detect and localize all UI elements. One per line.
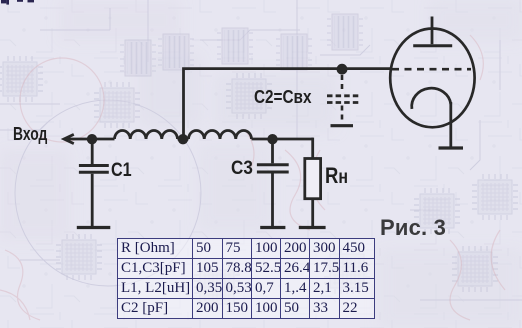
caption Ris. 3: [380, 215, 446, 241]
inductor L2: [189, 131, 252, 139]
clipped title text top-left: [1, 0, 34, 5]
label Vhod (input): [13, 124, 47, 145]
node J3: [267, 134, 277, 144]
label C3: [231, 158, 253, 180]
wire bend down to Rn: [311, 138, 314, 159]
ground bar Rn: [299, 226, 326, 229]
tube anode lead: [431, 17, 434, 45]
wire C3 bottom lead: [271, 174, 274, 227]
capacitor C2 dashed lead top: [341, 75, 344, 93]
capacitor C2 dashed lead bottom: [341, 106, 344, 122]
label Rn: [325, 163, 348, 189]
node J2: [178, 134, 188, 144]
label C1: [111, 160, 132, 182]
ground bar C1: [77, 226, 111, 229]
node J4: [337, 64, 348, 75]
inductor L1: [115, 131, 178, 139]
wire L2 to Rn bend: [252, 138, 314, 141]
input arrow: [64, 134, 92, 143]
wire J2 up and across to tube: [182, 69, 390, 140]
tube anode plate: [413, 44, 452, 47]
wire C1 bottom lead: [91, 174, 94, 227]
tube cathode: [412, 88, 451, 109]
wire Rn bottom lead: [311, 199, 314, 227]
resistor Rn: [305, 159, 321, 199]
capacitor C3: [257, 165, 289, 172]
tube envelope U1: [390, 29, 474, 128]
wire L1 to L2: [178, 138, 189, 141]
capacitor C1: [79, 166, 109, 173]
tube grid (dashed): [392, 68, 471, 71]
wire C3 top lead: [271, 139, 274, 163]
ground bar C3: [260, 226, 285, 229]
wire C1 top lead: [91, 139, 94, 164]
capacitor C2 dashed plates: [327, 96, 358, 103]
node J1: [87, 134, 97, 144]
data table: [117, 238, 375, 319]
cathode terminal bar: [439, 146, 464, 149]
ground bar C2: [331, 124, 354, 127]
wire J1 to L1: [92, 138, 115, 141]
label C2=Cvx: [254, 87, 311, 108]
wire cathode lead: [449, 102, 452, 148]
